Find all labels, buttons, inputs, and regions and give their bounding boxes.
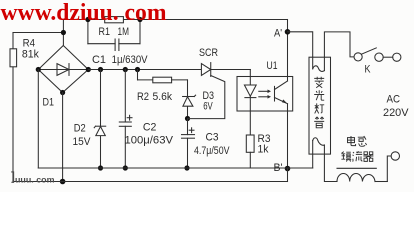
wire R4 bottom column (12, 67, 14, 182)
resistor R3 (246, 135, 254, 152)
wire lamp top-left pin (312, 57, 314, 69)
node junction R2/rail (135, 67, 140, 72)
svg-text:R2: R2 (137, 91, 149, 103)
wire R2 branch down (137, 70, 139, 80)
wire lamp top-right pin (323, 57, 325, 70)
wire C1 loop left vertical (87, 20, 89, 44)
wire R2 left lead (138, 79, 153, 81)
node junction C3/bottom (184, 165, 189, 170)
wire D2 column (100, 70, 102, 169)
wire C3 column bottom (187, 138, 189, 168)
node bridge left corner (36, 67, 41, 72)
fluorescent tube box (309, 57, 331, 154)
svg-text:D2: D2 (74, 123, 86, 135)
svg-text:C2: C2 (143, 122, 157, 134)
wire lamp right pin to switch (324, 32, 354, 71)
resistor R1 (105, 17, 124, 23)
wire collector column up to A' and top corner (287, 20, 289, 82)
svg-text:4.7μ/50V: 4.7μ/50V (194, 145, 230, 157)
svg-text:1M: 1M (118, 26, 130, 38)
wire top rail y=19.5 from bridge-top to top-right corner (63, 19, 287, 21)
svg-text:R1: R1 (99, 26, 111, 38)
wire B' down to outer rail (287, 169, 289, 182)
zener diode D3 (183, 95, 196, 106)
svg-text:B': B' (274, 162, 283, 174)
node junction D2/bottom (98, 165, 103, 170)
node junction bottom outer (60, 179, 66, 185)
svg-text:1μ/630V: 1μ/630V (112, 54, 149, 66)
wire bridge bottom down (62, 93, 64, 182)
resistor R4 (10, 49, 17, 67)
wire bottom outer rail y=181.5 (13, 181, 288, 183)
node bridge bottom corner (60, 90, 65, 95)
wire positive rail y=69.5 right of SCR (211, 69, 251, 71)
AC source bottom terminal (387, 152, 399, 182)
node B' (285, 166, 291, 172)
svg-text:100μ/63V: 100μ/63V (125, 135, 174, 147)
filament bottom (313, 138, 325, 146)
svg-text:1k: 1k (258, 144, 269, 156)
node bridge right corner (86, 67, 91, 72)
op-amp U1 optocoupler box (237, 77, 293, 112)
wire SCR gate (188, 76, 225, 119)
wire R4 column (12, 33, 14, 49)
node junction C2/rail (123, 67, 128, 72)
light arrows inside U1 (259, 90, 271, 99)
wire rail corner down to optocoupler LED (249, 70, 251, 136)
diode inside D1 (38, 64, 88, 76)
label inductive ballast (hanzi 电感) (348, 136, 367, 146)
node junction D3/C3/gate (185, 116, 190, 121)
zener diode D2 (94, 126, 106, 135)
label fluorescent tube (vertical hanzi) (314, 77, 324, 128)
svg-text:6V: 6V (203, 101, 213, 113)
wire bottom inner rail y=168 (38, 167, 312, 169)
wire C1 loop bottom right (119, 43, 140, 45)
svg-text:D1: D1 (43, 97, 55, 109)
wire positive rail y=69.5 left of SCR (88, 69, 201, 71)
wire bridge top vertical (62, 20, 64, 46)
svg-text:uuu. com: uuu. com (15, 175, 55, 184)
svg-text:K: K (365, 64, 372, 76)
svg-text:C1: C1 (92, 54, 106, 66)
wire R4 top y=32.5 (13, 32, 63, 34)
svg-text:U1: U1 (267, 60, 278, 72)
wire C3 column top (187, 119, 189, 135)
resistor R2 (153, 77, 172, 83)
wire D3 column top (187, 80, 189, 119)
wire C2 column bottom (124, 126, 126, 168)
thyristor SCR (201, 63, 210, 77)
node junction C1 right (137, 17, 142, 22)
svg-text:220V: 220V (383, 107, 409, 119)
switch K (354, 48, 401, 62)
capacitor C2 (119, 115, 132, 126)
wire bridge left down (37, 70, 39, 169)
wire A' branch to lamp (288, 32, 313, 69)
node junction R4/bridge-top (61, 30, 66, 35)
wire lamp bottom-left pin (312, 141, 314, 169)
filament top (313, 66, 325, 72)
svg-text:www.dziuu. com: www.dziuu. com (1, 0, 167, 26)
capacitor C1 (115, 39, 119, 51)
watermark grey bottom-left (11, 172, 54, 184)
svg-text:15V: 15V (73, 136, 92, 148)
diode LED inside U1 (244, 85, 256, 98)
transistor Q1 inside U1 (275, 81, 288, 104)
wire C1 loop right vertical (139, 20, 141, 44)
svg-text:81k: 81k (22, 49, 39, 61)
node junction C2/bottom (123, 165, 128, 170)
inductor ballast coil (337, 168, 387, 181)
wire emitter column down to B' (287, 104, 289, 169)
wire C2 column top (124, 70, 126, 123)
capacitor C3 (182, 128, 195, 138)
wire C1 loop bottom left (88, 43, 115, 45)
label ballast (hanzi 镇流器) (341, 151, 373, 161)
svg-text:SCR: SCR (199, 47, 218, 59)
wire R3 bottom lead (249, 152, 251, 168)
node junction C1 left (85, 17, 90, 22)
node junction D2/rail (98, 67, 103, 72)
svg-text:A': A' (274, 28, 282, 40)
svg-text:5.6k: 5.6k (153, 91, 173, 103)
svg-text:AC: AC (387, 94, 401, 106)
svg-text:C3: C3 (206, 132, 219, 144)
bridge rectifier D1 diamond (38, 46, 88, 93)
wire lamp bottom-right pin (324, 145, 337, 182)
node A' (285, 29, 291, 35)
wire R2 right lead (172, 79, 188, 81)
